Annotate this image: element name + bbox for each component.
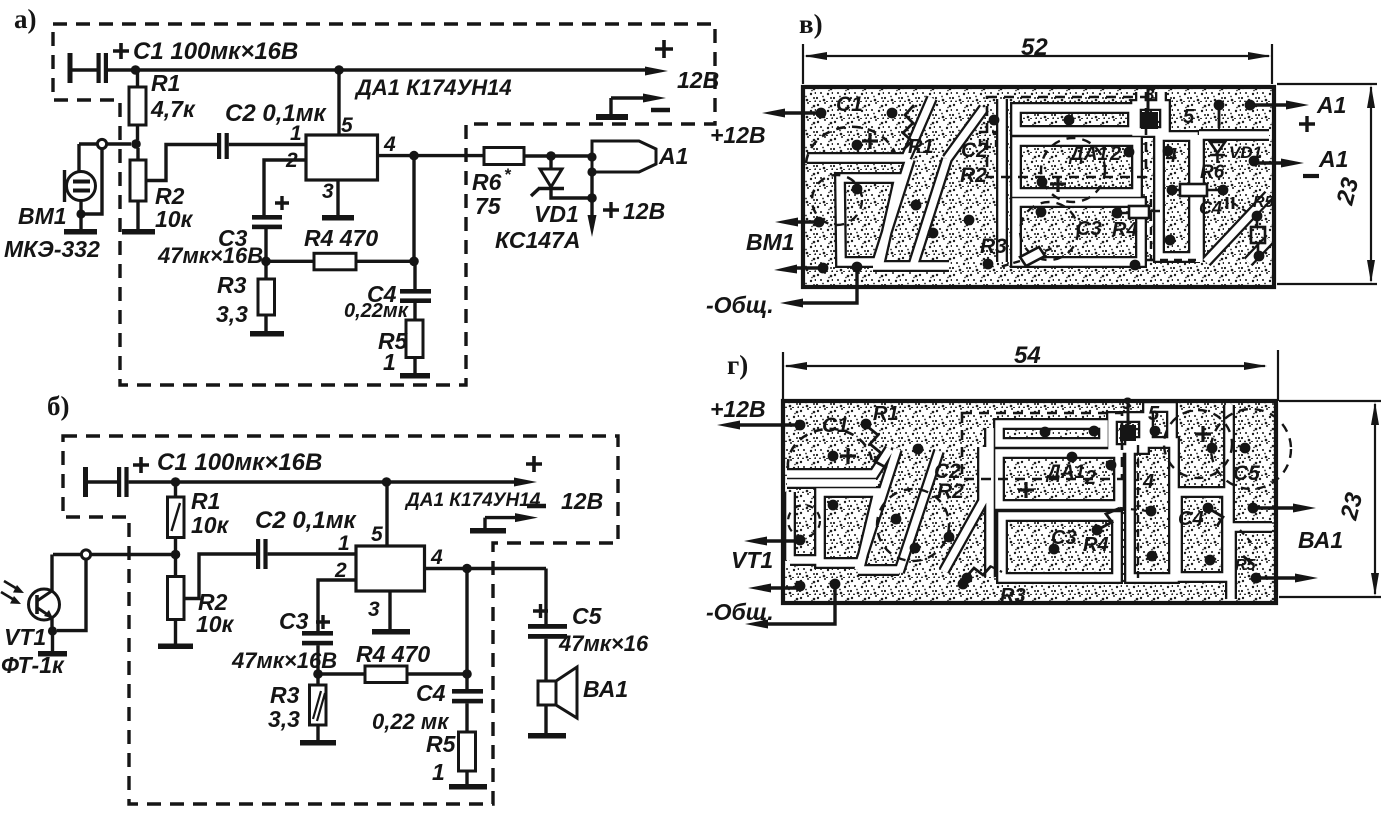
wire minus rail б xyxy=(485,518,518,528)
node R4/C4 xyxy=(409,257,419,267)
svg-text:A1: A1 xyxy=(658,143,688,169)
svg-text:3: 3 xyxy=(322,180,334,203)
svg-text:10к: 10к xyxy=(196,611,235,637)
resistor R2 xyxy=(136,148,139,229)
svg-text:VT1: VT1 xyxy=(731,547,773,573)
wire feedback R4 xyxy=(266,260,414,263)
wire VT1 emitter to ground xyxy=(50,618,53,631)
label +12V б xyxy=(526,456,542,472)
capacitor C4 leads г xyxy=(1208,508,1223,526)
svg-text:C3: C3 xyxy=(1076,218,1102,240)
svg-text:5: 5 xyxy=(1148,403,1160,425)
resistor R2 б xyxy=(174,559,177,644)
capacitor C4 marks в xyxy=(1227,197,1233,209)
wire VT1 emitter out г xyxy=(765,586,800,589)
svg-text:C3: C3 xyxy=(1051,527,1077,549)
op-amp U1 DA1 box xyxy=(306,135,378,180)
capacitor C1 xyxy=(117,467,121,497)
svg-text:R5: R5 xyxy=(1253,194,1275,211)
wire stub to C1 xyxy=(88,480,117,483)
resistor R3 xyxy=(264,261,267,331)
svg-text:C3: C3 xyxy=(279,608,309,634)
wire mic to junction xyxy=(79,142,131,145)
svg-text:4: 4 xyxy=(383,133,396,156)
ground bar pin3 б xyxy=(372,629,410,635)
svg-text:R3: R3 xyxy=(217,272,247,298)
PCB board г xyxy=(783,401,1276,603)
wire pin4 output б xyxy=(425,567,547,570)
resistor R1 squiggle г xyxy=(868,427,887,468)
svg-text:VT1: VT1 xyxy=(4,624,46,650)
wire to C5 xyxy=(544,569,547,625)
wire pin2 to C3 б xyxy=(318,580,356,631)
resistor R6 xyxy=(484,148,524,165)
svg-text:1: 1 xyxy=(290,122,302,145)
svg-text:C1: C1 xyxy=(822,414,849,437)
svg-text:2: 2 xyxy=(1109,143,1121,165)
wire R2 tap to C2 б xyxy=(184,554,256,599)
svg-text:ДА1 К174УН14: ДА1 К174УН14 xyxy=(354,75,512,100)
node C3/R3/R4 xyxy=(261,257,271,267)
wire A1 minus out в xyxy=(1251,161,1286,164)
resistor R5 б xyxy=(459,732,476,771)
svg-text:1: 1 xyxy=(338,532,350,555)
dimension 52 xyxy=(803,44,1272,84)
node pin4/C4 xyxy=(409,151,419,161)
svg-text:VD1: VD1 xyxy=(1229,143,1262,162)
node C1/R1 junction б xyxy=(171,477,181,487)
ground bar R5 б xyxy=(449,784,487,790)
zener diode VD1 xyxy=(549,156,552,169)
svg-text:C4: C4 xyxy=(416,680,446,706)
svg-text:VD1: VD1 xyxy=(534,201,579,227)
svg-text:R6: R6 xyxy=(1200,162,1225,183)
wire stub to C1 xyxy=(72,68,97,71)
svg-text:C4: C4 xyxy=(1178,508,1204,530)
wire feedback R4 б xyxy=(318,672,467,675)
resistor R1 xyxy=(136,70,139,140)
wire +12V out в xyxy=(779,111,821,114)
capacitor C5 dashed outline г xyxy=(1211,409,1291,489)
wire pin4 down to R4 б xyxy=(465,569,468,675)
solder pads board г xyxy=(795,419,1262,592)
ground bar BA1 xyxy=(528,733,566,739)
svg-text:47мк×16В: 47мк×16В xyxy=(157,243,263,268)
capacitor C1 xyxy=(97,53,101,83)
resistor R4 xyxy=(314,253,356,269)
svg-text:C4: C4 xyxy=(1199,198,1222,218)
wire C2 to pin1 xyxy=(229,143,306,146)
node R1/R2/mic junction xyxy=(131,139,141,149)
dashed enclosure panel а xyxy=(53,24,715,385)
svg-text:52: 52 xyxy=(1021,34,1048,61)
node pin5 rail junction б xyxy=(382,477,392,487)
ground bar R2 б xyxy=(158,644,193,650)
wire BM1 out в xyxy=(792,220,819,223)
svg-text:C1 100мк×16В: C1 100мк×16В xyxy=(133,38,298,65)
svg-text:-Общ.: -Общ. xyxy=(706,599,774,625)
svg-text:4,7к: 4,7к xyxy=(150,96,196,122)
svg-text:R1: R1 xyxy=(151,70,180,96)
svg-text:ФТ-1к: ФТ-1к xyxy=(1,652,65,678)
black pad square pin3 xyxy=(1147,89,1150,112)
dimension 54 xyxy=(783,350,1278,401)
resistor R3 squiggle г xyxy=(966,566,991,577)
resistor R3 б xyxy=(316,674,319,740)
node pin5 rail junction xyxy=(334,65,344,75)
dashed outline C3 body lower xyxy=(1020,202,1078,260)
svg-text:3: 3 xyxy=(368,598,380,621)
svg-text:1: 1 xyxy=(383,349,396,375)
wire common out г xyxy=(762,584,835,624)
svg-text:R1: R1 xyxy=(191,488,220,514)
svg-text:R4: R4 xyxy=(1112,219,1138,241)
resistor R3 outline в xyxy=(1020,247,1045,266)
svg-text:A1: A1 xyxy=(1316,92,1346,118)
svg-text:R5: R5 xyxy=(1235,557,1257,574)
chassis bar minus xyxy=(596,114,628,120)
solder pads board в xyxy=(814,100,1265,274)
dashed pad C2 xyxy=(980,132,996,147)
capacitor C4 б xyxy=(465,674,468,732)
op-amp U1 DA1 box б xyxy=(356,546,425,591)
wire pin3 to ground xyxy=(336,180,339,215)
svg-text:4: 4 xyxy=(1165,145,1177,167)
microphone BM1 xyxy=(67,172,96,201)
svg-text:A1: A1 xyxy=(1318,146,1348,172)
wire C2 to pin1 б xyxy=(268,552,356,555)
svg-text:3: 3 xyxy=(1122,394,1132,413)
ground bar R5 xyxy=(400,373,430,379)
dashed outline small left г xyxy=(788,505,820,537)
svg-text:R3: R3 xyxy=(980,235,1007,258)
ground bar R2 xyxy=(122,229,155,235)
dashed trace pin3 xyxy=(1146,199,1200,261)
capacitor C1 left terminal stub xyxy=(68,53,73,83)
photo arrows xyxy=(1,581,19,601)
svg-text:2: 2 xyxy=(1084,467,1096,489)
dimension 23 right xyxy=(1277,84,1377,284)
resistor R1 squiggle в xyxy=(903,105,914,150)
wire pin5 б xyxy=(385,482,388,546)
dashed outline lower-left cap xyxy=(812,175,862,225)
resistor R4 б xyxy=(365,666,407,683)
svg-text:0,22мк: 0,22мк xyxy=(344,300,409,322)
svg-text:R2: R2 xyxy=(937,480,964,503)
ground bar mic xyxy=(64,229,97,235)
wire R2 tap to C2 xyxy=(146,145,217,181)
svg-text:МКЭ-332: МКЭ-332 xyxy=(4,236,100,262)
svg-text:R4: R4 xyxy=(1083,534,1109,556)
pad link pin-a1 xyxy=(1218,105,1221,128)
svg-text:4: 4 xyxy=(1142,471,1154,493)
ground bar pin3 xyxy=(322,215,354,221)
wire C3 to R4 node б xyxy=(316,645,319,674)
svg-text:47мк×16: 47мк×16 xyxy=(558,631,649,656)
svg-text:C2: C2 xyxy=(961,139,988,162)
connector circle node б xyxy=(81,550,90,559)
wire pin2 to C3 xyxy=(264,160,306,215)
node pin4/C4 б xyxy=(462,564,472,574)
svg-text:C2 0,1мк: C2 0,1мк xyxy=(255,507,357,534)
capacitor C1 dashed outline г xyxy=(788,429,872,468)
resistor R1 б xyxy=(174,482,177,555)
svg-text:3: 3 xyxy=(1145,85,1155,104)
wire +12V rail xyxy=(108,68,650,71)
resistor R6 outline в xyxy=(1180,184,1207,196)
etched gap channels в (black edges) xyxy=(807,92,1269,266)
capacitor C3 xyxy=(252,215,282,220)
wire common out в xyxy=(797,267,857,303)
dimension 23 right г xyxy=(1279,401,1381,597)
svg-text:R1: R1 xyxy=(873,403,899,425)
zener VD1 outline в xyxy=(1210,142,1225,153)
wire +12V out г xyxy=(734,423,800,426)
svg-text:ВМ1: ВМ1 xyxy=(18,203,67,229)
node R1/R2 junction б xyxy=(171,550,181,560)
wire A1 plus out в xyxy=(1249,103,1291,106)
svg-text:C5: C5 xyxy=(1233,462,1260,485)
node C1/R1 junction xyxy=(131,65,141,75)
node R6/VD1 xyxy=(546,151,556,161)
IC DA1 dashed body г xyxy=(962,413,1122,479)
svg-text:3,3: 3,3 xyxy=(216,301,248,327)
svg-text:ВМ1: ВМ1 xyxy=(746,229,795,255)
wire BA1 out г xyxy=(1253,506,1298,509)
svg-text:г): г) xyxy=(727,350,748,380)
svg-text:R3: R3 xyxy=(1000,585,1026,607)
svg-text:54: 54 xyxy=(1014,342,1041,369)
svg-text:КС147А: КС147А xyxy=(495,227,580,253)
node C3/R3/R4 б xyxy=(313,669,323,679)
svg-text:1: 1 xyxy=(432,759,445,785)
node R4/C4 б xyxy=(462,669,472,679)
svg-text:4: 4 xyxy=(430,546,443,569)
svg-text:ДА1: ДА1 xyxy=(1045,462,1085,483)
ground bar R3 б xyxy=(300,740,336,746)
ground bar VT1 xyxy=(38,651,67,657)
connector circle node xyxy=(97,139,106,148)
svg-text:C1 100мк×16В: C1 100мк×16В xyxy=(157,449,322,476)
phototransistor VT1 xyxy=(50,555,53,593)
wire pin3 to ground б xyxy=(388,591,391,629)
svg-text:C5: C5 xyxy=(572,603,603,629)
svg-text:в): в) xyxy=(799,9,823,39)
svg-text:R4 470: R4 470 xyxy=(356,641,430,667)
etched gap channels г (white core) xyxy=(787,405,1272,599)
wire mic top lead xyxy=(77,144,80,171)
node mic ground junction xyxy=(76,209,85,218)
wire pin4 down to R4 xyxy=(412,156,415,262)
wire pin4 output xyxy=(378,154,485,157)
dashed outline C3 body upper xyxy=(1041,138,1105,202)
wire minus rail xyxy=(611,98,646,114)
svg-text:5: 5 xyxy=(341,114,353,137)
etched gap channels г (black edges) xyxy=(787,405,1272,599)
capacitor C3 б xyxy=(302,631,333,636)
wire C3 to R4 node xyxy=(264,229,267,261)
capacitor C2 xyxy=(217,133,221,159)
black pad square г xyxy=(1127,403,1130,426)
connector A1 xyxy=(592,141,656,172)
wire BA1 minus out г xyxy=(1256,576,1300,579)
svg-text:C2 0,1мк: C2 0,1мк xyxy=(225,100,327,127)
arrow +12V down xyxy=(590,198,593,222)
svg-text:а): а) xyxy=(14,4,37,34)
svg-text:R6: R6 xyxy=(472,169,502,195)
wire mic shield loop xyxy=(84,149,102,215)
dashed outline cap mid г xyxy=(877,489,949,561)
IC DA1 dashed body в xyxy=(987,97,1146,177)
svg-text:3,3: 3,3 xyxy=(268,706,300,732)
PCB board в xyxy=(803,87,1274,287)
wire VT1 shield loop xyxy=(57,558,86,631)
speaker BA1 xyxy=(538,681,556,705)
capacitor C1 left terminal stub xyxy=(83,467,88,497)
svg-text:75: 75 xyxy=(475,193,502,219)
svg-text:R3: R3 xyxy=(270,682,300,708)
wire BM1 shield out в xyxy=(791,266,823,269)
svg-text:ВА1: ВА1 xyxy=(583,676,628,702)
svg-text:+12В: +12В xyxy=(710,396,766,422)
svg-text:R4 470: R4 470 xyxy=(304,225,378,251)
svg-text:10к: 10к xyxy=(155,206,194,232)
svg-text:ДА1: ДА1 xyxy=(1068,144,1108,165)
svg-text:10к: 10к xyxy=(191,512,230,538)
svg-text:R5: R5 xyxy=(426,731,457,757)
svg-text:-Общ.: -Общ. xyxy=(706,292,774,318)
svg-text:ВА1: ВА1 xyxy=(1298,527,1343,553)
svg-text:C1: C1 xyxy=(836,93,863,116)
svg-text:+12В: +12В xyxy=(710,122,766,148)
svg-text:ДА1 К174УН14: ДА1 К174УН14 xyxy=(404,490,541,511)
wire VT1 out г xyxy=(761,539,800,542)
svg-text:5: 5 xyxy=(371,523,383,546)
svg-text:5: 5 xyxy=(1183,106,1195,128)
dashed enclosure panel б xyxy=(63,436,618,804)
svg-text:R1: R1 xyxy=(908,136,934,158)
wire mic to ground xyxy=(79,201,82,230)
svg-text:12В: 12В xyxy=(677,67,719,93)
svg-text:47мк×16В: 47мк×16В xyxy=(231,648,337,673)
capacitor C2 б xyxy=(256,539,260,569)
label +12V rail xyxy=(655,40,673,58)
capacitor C4 xyxy=(413,261,416,320)
resistor R5 outline в xyxy=(1251,227,1265,243)
svg-text:12В: 12В xyxy=(561,488,603,514)
dashed outline C3 cap г xyxy=(1164,410,1232,478)
wire C5 to speaker xyxy=(544,639,547,681)
svg-text:R2: R2 xyxy=(960,164,987,187)
etched gap channels в (white core) xyxy=(807,92,1269,266)
resistor R5 marks г xyxy=(1243,556,1254,565)
resistor R4 squiggle г xyxy=(1099,508,1120,529)
ground bar R3 xyxy=(250,331,284,337)
resistor R5 xyxy=(406,320,423,358)
chassis bar minus б xyxy=(470,528,506,534)
node VD1/+12V xyxy=(587,193,597,203)
svg-text:б): б) xyxy=(47,391,70,421)
wire phototransistor to junction xyxy=(53,553,171,556)
resistor R4 outline в xyxy=(1129,206,1149,218)
capacitor C5 xyxy=(528,624,567,629)
svg-text:12В: 12В xyxy=(623,198,665,224)
wire pin5 xyxy=(337,70,340,135)
capacitor C1 dashed outline xyxy=(806,127,895,163)
wire +12V rail б xyxy=(129,480,515,483)
dashed trace pin3 г xyxy=(1137,445,1139,578)
